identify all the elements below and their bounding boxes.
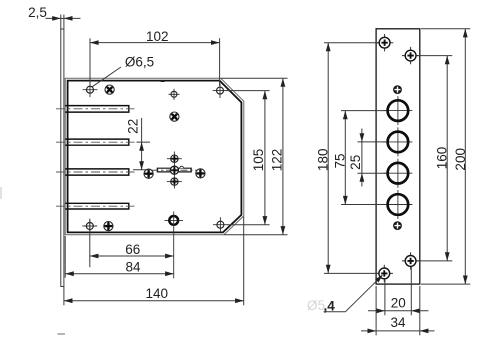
svg-text:200: 200 <box>453 148 468 171</box>
bolt circle 2 <box>383 127 412 156</box>
dimension 34 right extension <box>419 286 421 335</box>
dimension 160 down arrow <box>445 252 450 261</box>
svg-text:122: 122 <box>269 149 284 172</box>
dimension 140 line <box>64 300 244 302</box>
faceplate screw top-center <box>393 85 402 94</box>
svg-text:25: 25 <box>348 155 363 170</box>
dimension 20 left arrow <box>376 308 385 313</box>
cluster vertical centerline <box>173 152 175 189</box>
dimension 25 top arrow <box>360 133 365 142</box>
bolt circle 1 <box>383 96 412 125</box>
svg-text:22: 22 <box>126 119 141 134</box>
dimension 75 top extension <box>341 110 386 112</box>
svg-text:160: 160 <box>434 147 449 170</box>
bolt circle 4 <box>383 190 412 219</box>
hole bottom-left corner <box>82 219 97 234</box>
tab slot 2 outline <box>65 139 129 145</box>
dimension 105 line <box>264 91 266 225</box>
dimension 180 up arrow <box>326 43 331 52</box>
svg-text:66: 66 <box>125 242 140 257</box>
dimension 102 left extension <box>89 38 91 85</box>
hole top-center <box>168 89 179 100</box>
dimension 66 line <box>90 255 174 257</box>
faceplate side view bottom cap <box>60 286 64 288</box>
svg-text:34: 34 <box>390 315 406 330</box>
spindle slot notch <box>180 166 184 168</box>
dimension 20 left extension <box>384 280 386 316</box>
screw bottom-left <box>104 222 113 231</box>
dimension 84 right arrow <box>165 271 174 276</box>
diameter 5,4 leader underline <box>324 311 346 313</box>
dimension 160 line <box>446 56 448 261</box>
scan mark bottom left <box>58 333 66 335</box>
dimension 2,5 right arrow <box>64 16 73 21</box>
screw upper-center <box>168 110 181 123</box>
dimension 102 right arrow <box>211 40 220 45</box>
dimension 25 bottom arrow <box>360 173 365 182</box>
latch bolt hole <box>165 216 184 225</box>
dimension 180 down arrow <box>326 265 331 274</box>
dimension 20 right arrow <box>411 308 420 313</box>
bottom-left hole extension line <box>89 220 91 267</box>
svg-text:,4: ,4 <box>324 299 336 314</box>
svg-text:105: 105 <box>251 149 266 172</box>
faceplate screw hole top-left <box>376 34 393 51</box>
tab slot 3 outline <box>65 169 129 175</box>
dimension 102 right extension <box>219 38 221 86</box>
diameter 5,4 leader diagonal <box>346 275 383 311</box>
dimension 34 left arrow <box>368 329 377 334</box>
dimension 200 down arrow <box>463 276 468 285</box>
dimension 25 bottom extension <box>358 172 387 174</box>
dimension 25 top extension <box>358 141 387 143</box>
screw top-left <box>103 83 116 96</box>
hole bottom-right chamfer <box>213 217 228 232</box>
bolt circle 3 <box>383 159 412 188</box>
dimension 22 line <box>141 118 143 170</box>
dimension 34 right arrow <box>420 329 429 334</box>
svg-text:2,5: 2,5 <box>28 5 47 20</box>
faceplate screw bottom-center <box>393 221 402 230</box>
scan mark left edge <box>0 187 2 199</box>
dimension 75 down arrow <box>343 196 348 205</box>
tab slot 3 centerline <box>56 171 135 173</box>
dimension 22 up arrow <box>139 142 144 151</box>
dimension 84 left extension <box>64 236 66 278</box>
faceplate side view top cap <box>60 28 64 30</box>
dimension 66 right arrow <box>165 254 174 259</box>
faceplate screw hole lower-right <box>402 252 419 269</box>
dimension 2,5 left arrow <box>52 16 61 21</box>
dimension 22 down arrow <box>139 161 144 170</box>
tab slot 2 centerline <box>56 141 135 143</box>
lock box inner outline <box>68 81 242 233</box>
dimension 105 up arrow <box>263 91 268 100</box>
dimension 122 down arrow <box>281 226 286 235</box>
dimension 84 left arrow <box>65 271 74 276</box>
dimension 34 line <box>361 330 435 332</box>
dimension 66 left arrow <box>90 254 99 259</box>
lock box outer outline <box>65 78 244 235</box>
tab slot 1 outline <box>65 106 129 113</box>
dimension 22 bottom extension tick <box>133 169 150 171</box>
screw cluster right <box>196 169 205 178</box>
diameter 5,4 leader arrow <box>375 273 384 282</box>
latch bolt hole vertical centerline extension <box>173 212 175 279</box>
dimension 75 up arrow <box>343 111 348 120</box>
dimension 200 line <box>464 29 466 284</box>
faceplate screw hole upper-right <box>402 47 419 64</box>
faceplate side view left line <box>60 15 62 287</box>
svg-text:140: 140 <box>146 286 169 301</box>
faceplate front view outline <box>376 29 420 284</box>
dimension 22 top extension tick <box>137 141 151 143</box>
hole top-right chamfer <box>213 83 228 98</box>
faceplate side view right line <box>63 15 65 306</box>
dimension 105 top extension <box>226 90 270 92</box>
svg-text:Ø5: Ø5 <box>307 298 325 313</box>
dimension 102 line <box>90 42 220 44</box>
dimension 122 bottom extension <box>224 234 288 236</box>
dimension 140 right arrow <box>235 298 244 303</box>
dimension 160 top extension <box>417 55 452 57</box>
dimension 200 top extension <box>421 28 470 30</box>
dimension 140 left arrow <box>64 298 73 303</box>
dimension 180 top extension <box>324 42 379 44</box>
scan mark top edge of lock box <box>161 80 165 82</box>
dimension 75 bottom extension <box>341 204 386 206</box>
faceplate screw hole bottom-left <box>376 265 393 282</box>
dimension 122 up arrow <box>281 78 286 87</box>
dimension 102 left arrow <box>90 40 99 45</box>
dimension 105 down arrow <box>263 216 268 225</box>
dimension 84 line <box>65 273 174 275</box>
tab slot 1 centerline <box>56 108 135 110</box>
dimension 75 line <box>344 111 346 205</box>
dimension 2,5 line <box>46 17 81 19</box>
cluster lower hole <box>167 178 182 185</box>
dimension 20 line <box>368 310 429 312</box>
dimension 200 up arrow <box>463 29 468 38</box>
spindle slot center boss <box>170 166 178 174</box>
dimension 180 line <box>327 43 329 274</box>
dimension 25 line <box>361 129 363 187</box>
dimension 140 right extension <box>243 217 245 306</box>
screw cluster left <box>144 169 153 178</box>
spindle slot outline <box>157 168 191 172</box>
tab slot 4 outline <box>65 203 129 209</box>
svg-text:102: 102 <box>146 29 169 44</box>
svg-text:180: 180 <box>316 149 331 172</box>
dimension 34 left extension <box>375 286 377 335</box>
svg-text:Ø6,5: Ø6,5 <box>125 55 154 70</box>
cluster horizontal centerline <box>152 169 197 171</box>
svg-text:20: 20 <box>391 295 406 310</box>
dimension 122 top extension <box>221 77 288 79</box>
diameter 6,5 leader line <box>92 67 121 87</box>
dimension 105 bottom extension <box>227 224 270 226</box>
dimension 160 up arrow <box>445 56 450 65</box>
dimension 160 bottom extension <box>417 260 452 262</box>
dimension 200 bottom extension <box>421 283 470 285</box>
svg-text:84: 84 <box>125 260 141 275</box>
dimension 122 line <box>282 78 284 235</box>
hole top-left corner <box>83 82 98 97</box>
cluster upper hole <box>167 155 182 162</box>
tab slot 4 centerline <box>56 205 135 207</box>
dimension 20 right extension <box>410 267 412 315</box>
dimension 180 bottom extension <box>324 272 378 274</box>
svg-text:75: 75 <box>333 153 348 168</box>
